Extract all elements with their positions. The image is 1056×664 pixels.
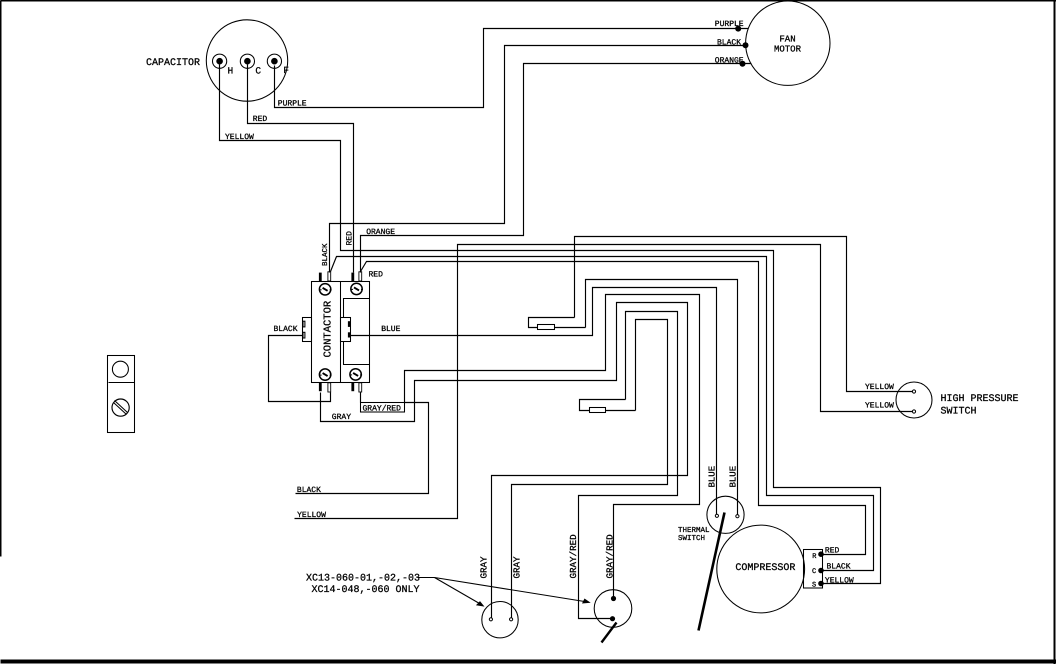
svg-text:RED: RED <box>253 115 268 124</box>
svg-text:S: S <box>812 581 816 589</box>
svg-text:XC14-048,-060 ONLY: XC14-048,-060 ONLY <box>312 585 420 596</box>
svg-text:BLUE: BLUE <box>729 466 739 488</box>
svg-text:YELLOW: YELLOW <box>225 133 254 142</box>
svg-text:GRAY/RED: GRAY/RED <box>605 534 616 579</box>
svg-text:FAN: FAN <box>779 35 795 45</box>
svg-text:GRAY: GRAY <box>479 556 490 579</box>
svg-text:SWITCH: SWITCH <box>941 407 977 418</box>
svg-text:BLUE: BLUE <box>708 466 718 488</box>
svg-text:C: C <box>812 568 816 576</box>
svg-text:GRAY: GRAY <box>512 556 523 579</box>
svg-text:GRAY/RED: GRAY/RED <box>568 534 579 579</box>
svg-text:BLACK: BLACK <box>827 562 851 571</box>
svg-text:SWITCH: SWITCH <box>678 534 705 543</box>
svg-text:BLACK: BLACK <box>321 243 330 266</box>
svg-text:RED: RED <box>346 231 355 246</box>
svg-text:HIGH PRESSURE: HIGH PRESSURE <box>941 394 1019 405</box>
svg-text:F: F <box>283 65 289 76</box>
svg-text:GRAY: GRAY <box>332 413 351 422</box>
svg-text:ORANGE: ORANGE <box>366 228 395 237</box>
svg-text:H: H <box>228 65 234 76</box>
svg-text:PURPLE: PURPLE <box>278 99 307 108</box>
svg-text:BLACK: BLACK <box>297 486 321 495</box>
svg-text:RED: RED <box>369 271 384 280</box>
svg-text:PURPLE: PURPLE <box>715 20 744 29</box>
svg-text:GRAY/RED: GRAY/RED <box>363 404 402 413</box>
svg-text:YELLOW: YELLOW <box>865 383 894 392</box>
svg-text:THERMAL: THERMAL <box>678 527 710 535</box>
svg-text:CONTACTOR: CONTACTOR <box>323 300 335 357</box>
svg-text:BLACK: BLACK <box>717 38 741 47</box>
svg-text:BLUE: BLUE <box>381 325 400 334</box>
svg-text:ORANGE: ORANGE <box>715 56 744 65</box>
svg-text:MOTOR: MOTOR <box>774 45 802 55</box>
svg-text:XC13-060-01,-02,-03: XC13-060-01,-02,-03 <box>306 574 420 585</box>
svg-text:YELLOW: YELLOW <box>865 402 894 411</box>
svg-text:C: C <box>255 65 261 76</box>
svg-text:RED: RED <box>825 546 840 555</box>
svg-text:COMPRESSOR: COMPRESSOR <box>735 563 795 574</box>
svg-text:YELLOW: YELLOW <box>825 576 854 585</box>
svg-text:YELLOW: YELLOW <box>297 511 326 520</box>
svg-text:BLACK: BLACK <box>274 325 298 334</box>
svg-text:CAPACITOR: CAPACITOR <box>146 58 200 69</box>
